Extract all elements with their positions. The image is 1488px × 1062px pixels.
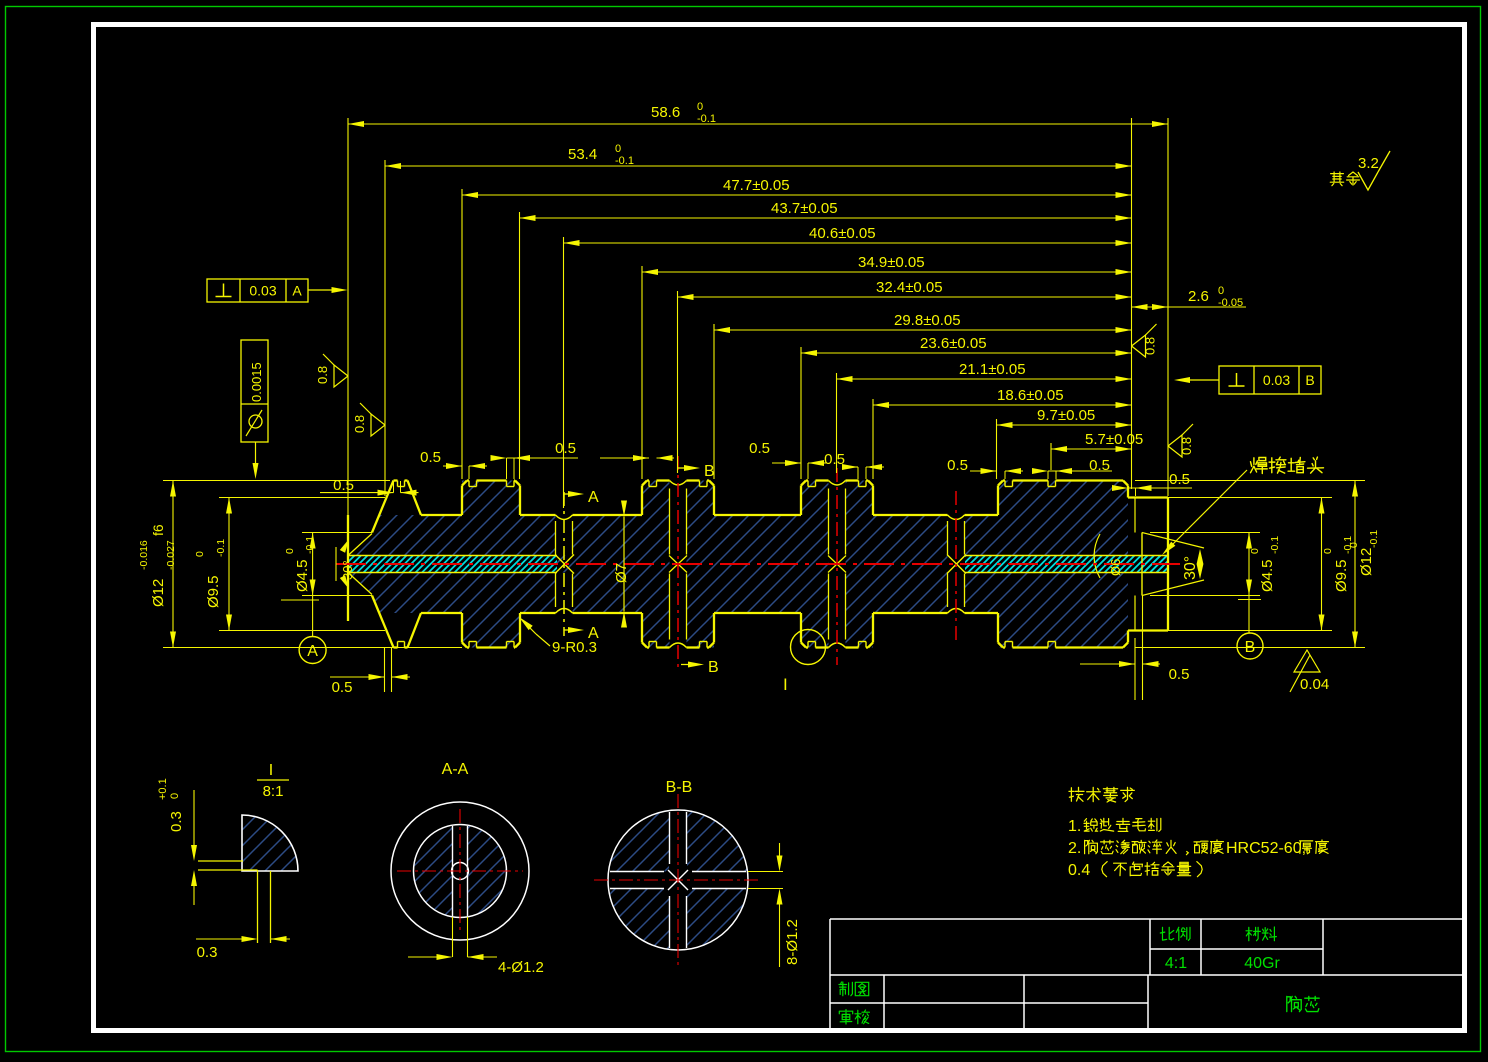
dimension 30 deg right [1142, 533, 1204, 549]
bore outline left [348, 555, 557, 557]
section hatch mid lower [391, 573, 556, 614]
svg-text:I: I [269, 762, 273, 779]
svg-text:0.5: 0.5 [824, 451, 845, 468]
detail I surfaces [198, 860, 243, 862]
svg-text:9.7±0.05: 9.7±0.05 [1037, 407, 1095, 424]
section hatch lands upper [462, 481, 520, 516]
svg-text:-0.1: -0.1 [697, 113, 716, 125]
svg-text:0.5: 0.5 [420, 449, 441, 466]
svg-text:-0.1: -0.1 [615, 155, 634, 167]
flange cone bottom [408, 613, 422, 648]
svg-text:23.6±0.05: 23.6±0.05 [920, 335, 987, 352]
roughness others 3.2 [1330, 172, 1343, 186]
svg-text:0: 0 [1218, 285, 1224, 297]
B-B channel vertical [669, 812, 671, 864]
svg-text:34.9±0.05: 34.9±0.05 [858, 254, 925, 271]
dimension 0.5 land1 right notch [507, 457, 579, 459]
svg-text:-0.05: -0.05 [1218, 297, 1243, 309]
svg-text:0.8: 0.8 [1179, 437, 1194, 455]
dimension 0.5 land4 groove [1048, 470, 1112, 472]
svg-text:32.4±0.05: 32.4±0.05 [876, 279, 943, 296]
svg-text:f6: f6 [150, 524, 166, 536]
left cone top [372, 481, 394, 533]
tech notes title [1069, 787, 1084, 801]
section arrow A bottom [564, 629, 578, 631]
svg-text:0.5: 0.5 [1169, 471, 1190, 488]
dimension 32.4 [678, 296, 1132, 298]
groove floor 2 bottom [520, 612, 556, 614]
svg-text:0.03: 0.03 [249, 283, 276, 299]
svg-text:9-R0.3: 9-R0.3 [552, 639, 597, 656]
radial hole at x=956 [947, 521, 949, 555]
section arrow A top [564, 493, 578, 495]
svg-text:0.5: 0.5 [333, 477, 354, 494]
svg-text:0.5: 0.5 [555, 440, 576, 457]
title material header [1246, 927, 1260, 940]
dimension 0.5 bottom left [384, 648, 386, 693]
roughness 0.8 right inner [1132, 335, 1146, 357]
dimension 34.9 [642, 271, 1132, 273]
svg-text:47.7±0.05: 47.7±0.05 [723, 177, 790, 194]
svg-text:43.7±0.05: 43.7±0.05 [771, 200, 838, 217]
dimension 0.5 land2 arrows [600, 457, 649, 459]
dimension dia12 left [163, 480, 390, 482]
bore outline right [965, 555, 1168, 557]
dimension dia7 [623, 517, 625, 612]
svg-text:Ø12: Ø12 [150, 579, 167, 607]
title block grid [830, 918, 1464, 920]
hole centerline B [677, 456, 679, 671]
dimension 47.7 [462, 194, 1132, 196]
bore hatch right [965, 556, 1168, 573]
dimension extension lines top [347, 118, 349, 515]
detail I lobe [242, 815, 298, 871]
title part name [1287, 996, 1301, 1011]
dimension 9.7 [997, 424, 1132, 426]
section hatch left wedge lower [348, 573, 391, 614]
svg-text:Ø12: Ø12 [1358, 548, 1375, 576]
svg-text:Ø9.5: Ø9.5 [205, 575, 222, 608]
A-A outer circle [391, 802, 529, 940]
left drill cone bottom [348, 573, 372, 595]
groove floor 4 top [873, 514, 948, 516]
svg-text:-0.1: -0.1 [1269, 536, 1281, 554]
label welded plug [1251, 458, 1268, 474]
plug hatch [1142, 556, 1168, 573]
land 2 [641, 486, 643, 516]
dimension 29.8 [714, 329, 1132, 331]
plug face [1141, 533, 1143, 596]
dimension 18.6 [873, 404, 1132, 406]
dimension 0.5 land3 left notch [772, 462, 801, 464]
datum A [312, 596, 314, 638]
A-A hatched disc [414, 825, 507, 918]
FCF perpendicularity 0.03 A [207, 279, 308, 302]
dimension 0.5 land1 left notch [443, 465, 462, 467]
dimension 53.4 [385, 165, 1132, 167]
svg-text:0.3: 0.3 [168, 811, 185, 832]
dimension 0.5 land4 left notch [970, 470, 997, 472]
dimension 0.5 land3 right notch [847, 466, 858, 468]
svg-text:0: 0 [1348, 542, 1360, 548]
dimension dia9.5 right [1135, 497, 1332, 499]
flange bottom edge [394, 646, 398, 648]
svg-text:0.5: 0.5 [1089, 457, 1110, 474]
svg-text:0.8: 0.8 [1143, 337, 1158, 355]
B-B dim 8-dia1.2 [748, 871, 783, 873]
FCF perpendicularity 0.03 B [1219, 366, 1321, 394]
groove floor 3 bottom [714, 612, 801, 614]
svg-text:Ø4.5: Ø4.5 [1259, 559, 1276, 592]
svg-text:-0.1: -0.1 [215, 539, 227, 557]
svg-text:2.6: 2.6 [1188, 288, 1209, 305]
left cone bottom [372, 596, 394, 648]
svg-text:58.6: 58.6 [651, 104, 680, 121]
svg-text:HRC52-60,: HRC52-60, [1226, 840, 1306, 857]
dimension 0.5 right step groove [1128, 487, 1192, 489]
groove floor 4 bottom [873, 612, 948, 614]
svg-text:B-B: B-B [666, 779, 693, 796]
flange top edge [394, 479, 398, 481]
A-A centerlines [397, 870, 523, 872]
svg-text:-0.027: -0.027 [165, 540, 177, 570]
svg-text:0.8: 0.8 [352, 415, 367, 433]
svg-text:5.7±0.05: 5.7±0.05 [1085, 431, 1143, 448]
right stub top [1128, 496, 1168, 498]
svg-text:30°: 30° [340, 560, 355, 580]
svg-text:A: A [307, 643, 318, 660]
section hatch left wedge upper [348, 515, 391, 556]
svg-text:0.4: 0.4 [1068, 862, 1090, 879]
svg-text:0: 0 [169, 793, 181, 799]
svg-text:4:1: 4:1 [1165, 955, 1187, 972]
dimension 40.6 [564, 242, 1132, 244]
B-B channel horizontal [610, 871, 664, 873]
dimension 2.6 [1132, 306, 1247, 308]
left drill cone top [348, 534, 372, 556]
flange cone top [408, 481, 422, 516]
B-B hatched disc [608, 810, 748, 950]
svg-text:B: B [704, 463, 715, 480]
svg-text:Ø7: Ø7 [613, 563, 630, 583]
dimension 5.7 [1051, 448, 1132, 450]
section hatch mid upper [391, 515, 556, 556]
svg-text:21.1±0.05: 21.1±0.05 [959, 361, 1026, 378]
main horizontal centerline [336, 563, 1180, 565]
FCF circularity 0.0015 [241, 340, 268, 442]
svg-text:40Gr: 40Gr [1244, 955, 1280, 972]
A-A hole channel [452, 826, 454, 916]
bore end cone right [947, 555, 966, 574]
svg-text:B: B [708, 659, 719, 676]
A-A inner circle [414, 825, 507, 918]
svg-text:30°: 30° [1182, 556, 1199, 580]
bore hatch left [348, 556, 557, 573]
svg-text:1.: 1. [1068, 818, 1081, 835]
svg-text:0.03: 0.03 [1263, 372, 1290, 388]
svg-text:0: 0 [1322, 548, 1334, 554]
svg-text:A-A: A-A [442, 761, 469, 778]
radial hole at x=837 [828, 489, 830, 555]
dimension 23.6 [801, 352, 1132, 354]
svg-text:0.04: 0.04 [1300, 676, 1329, 693]
section arrow B top [678, 467, 694, 469]
roughness 0.8 right outer [1168, 435, 1182, 457]
svg-text:A: A [588, 489, 599, 506]
svg-text:0.3: 0.3 [197, 944, 218, 961]
svg-text:4-Ø1.2: 4-Ø1.2 [498, 959, 544, 976]
radial hole at x=678 [669, 489, 671, 555]
B-B centerlines [594, 879, 762, 881]
svg-text:I: I [783, 675, 788, 694]
dimension dia4.5 left [302, 532, 372, 534]
land 3 [800, 486, 802, 516]
datum B [1248, 596, 1250, 634]
svg-text:Ø9.5: Ø9.5 [1333, 559, 1350, 592]
dimension dia4.5 right [1150, 532, 1260, 534]
detail I dim 0.3 step [193, 790, 195, 855]
section hatch center band [557, 556, 670, 573]
A-A dim 4-dia1.2 [452, 917, 454, 957]
svg-text:A: A [292, 283, 302, 299]
detail circle I [791, 630, 826, 665]
dimension 58.6 [348, 123, 1168, 125]
svg-text:0.8: 0.8 [315, 366, 330, 384]
svg-text:0: 0 [697, 101, 703, 113]
svg-text:Ø6: Ø6 [1108, 559, 1123, 576]
svg-text:8:1: 8:1 [263, 783, 284, 800]
svg-text:Ø4.5: Ø4.5 [294, 559, 311, 592]
groove floor 1 top [421, 514, 462, 516]
svg-text:8-Ø1.2: 8-Ø1.2 [784, 919, 801, 965]
land 4 [997, 486, 999, 516]
plug weld arc [1094, 534, 1100, 578]
svg-text:53.4: 53.4 [568, 146, 597, 163]
groove floor 2 top [520, 514, 556, 516]
svg-text:2.: 2. [1068, 840, 1081, 857]
hole centerline x=837 [836, 468, 838, 665]
title drawn by [839, 982, 852, 996]
B-B center cones [668, 870, 688, 890]
A-A center hole [452, 863, 469, 880]
groove floor 1 bottom [421, 612, 462, 614]
dimension dia12 right [1135, 480, 1365, 482]
svg-text:0: 0 [1249, 548, 1261, 554]
svg-text:0.5: 0.5 [1169, 666, 1190, 683]
dimension dia9.5 left [219, 497, 385, 499]
svg-text:+0.1: +0.1 [157, 778, 169, 800]
svg-text:0: 0 [615, 143, 621, 155]
section arrow B bottom [681, 664, 698, 666]
dimension 0.5 flange underline [320, 492, 356, 494]
svg-text:29.8±0.05: 29.8±0.05 [894, 312, 961, 329]
groove floor 3 top [714, 514, 801, 516]
section hatch lands lower [462, 613, 520, 648]
dimension 21.1 [837, 378, 1132, 380]
dimension 0.5 bottom right [1134, 638, 1136, 700]
detail I dim 0.3 width [196, 938, 251, 940]
dimension 0.5 flange [356, 492, 394, 494]
svg-text:0.0015: 0.0015 [249, 362, 264, 402]
hole centerline x=956 [955, 491, 957, 641]
svg-text:-0.016: -0.016 [138, 540, 150, 570]
svg-text:0.5: 0.5 [332, 679, 353, 696]
svg-text:18.6±0.05: 18.6±0.05 [997, 387, 1064, 404]
svg-text:0.5: 0.5 [947, 457, 968, 474]
svg-text:3.2: 3.2 [1358, 155, 1379, 172]
title scale header [1160, 927, 1173, 940]
left end face [347, 515, 349, 621]
svg-text:0: 0 [194, 551, 206, 557]
bore end cone A [555, 555, 574, 574]
radial hole at x=564 [555, 521, 557, 555]
svg-text:B: B [1305, 372, 1314, 388]
svg-text:-0.1: -0.1 [304, 536, 316, 554]
roughness 0.8 left outer [334, 365, 348, 387]
runout flag 0.04 [1290, 655, 1310, 692]
title checked by [839, 1010, 852, 1024]
right stub bottom [1128, 629, 1168, 631]
dimension 43.7 [520, 217, 1132, 219]
right end face [1167, 498, 1169, 631]
roughness 0.8 left inner [371, 414, 385, 436]
land 1 [461, 486, 463, 516]
svg-text:0.5: 0.5 [749, 440, 770, 457]
section line A-A [563, 492, 565, 636]
dimension 30 deg left [340, 539, 349, 553]
svg-text:0: 0 [284, 548, 296, 554]
svg-text:-0.1: -0.1 [1368, 530, 1380, 548]
svg-text:40.6±0.05: 40.6±0.05 [809, 225, 876, 242]
B-B outer circle [608, 810, 748, 950]
